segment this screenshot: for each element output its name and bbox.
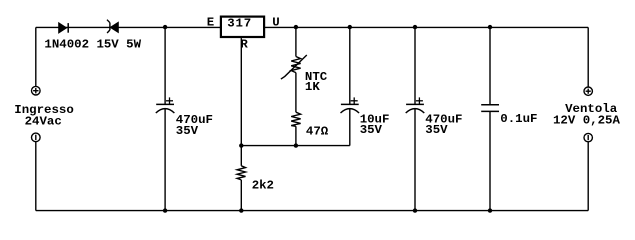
- svg-text:R: R: [240, 38, 248, 52]
- svg-text:1K: 1K: [305, 80, 320, 94]
- svg-text:2k2: 2k2: [252, 179, 274, 193]
- svg-text:U: U: [272, 16, 279, 30]
- svg-text:35V: 35V: [425, 123, 448, 137]
- svg-text:24Vac: 24Vac: [25, 114, 62, 128]
- svg-text:12V 0,25A: 12V 0,25A: [553, 113, 620, 127]
- svg-text:1N4002 15V 5W: 1N4002 15V 5W: [44, 37, 141, 51]
- svg-text:0.1uF: 0.1uF: [500, 112, 537, 126]
- svg-text:35V: 35V: [176, 124, 199, 138]
- svg-text:317: 317: [227, 16, 252, 30]
- svg-text:E: E: [207, 16, 214, 30]
- svg-text:47Ω: 47Ω: [306, 125, 329, 139]
- svg-text:35V: 35V: [360, 123, 383, 137]
